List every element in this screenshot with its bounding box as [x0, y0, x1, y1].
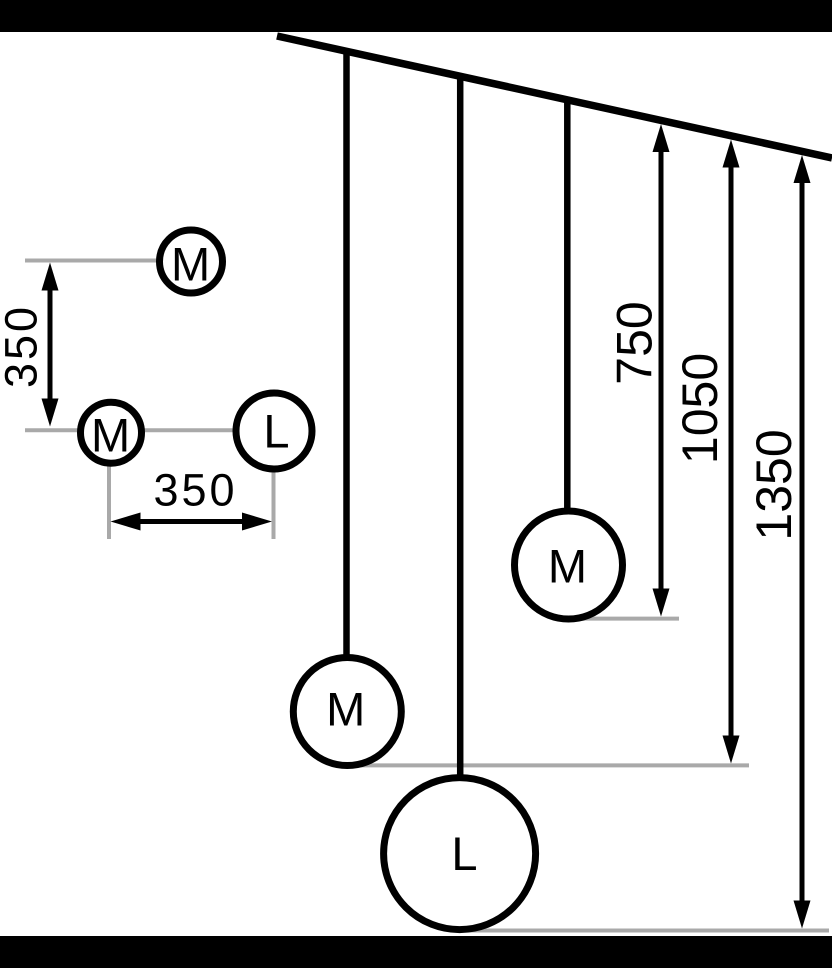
- svg-text:1050: 1050: [672, 353, 728, 464]
- gray level line under right M lamp: [569, 617, 680, 621]
- gray reference line row1 (plan M lamp): [25, 259, 191, 263]
- svg-text:L: L: [451, 827, 477, 880]
- plan view lamp L: [236, 393, 312, 469]
- 750 dimension arrow: [653, 124, 670, 617]
- gray level line under hanging L lamp: [460, 929, 829, 933]
- svg-text:M: M: [326, 683, 365, 736]
- hanging lamp M right: [515, 511, 623, 619]
- svg-text:350: 350: [153, 465, 237, 516]
- gray extension line below plan M2: [107, 433, 111, 539]
- gray reference line row2 (plan M + L lamps): [25, 428, 274, 432]
- cord of middle M lamp: [343, 50, 350, 680]
- plan view lamp M top: [160, 230, 223, 293]
- svg-text:M: M: [171, 238, 210, 291]
- top letterbox bar: [0, 0, 832, 32]
- vertical 350 dimension arrow: [42, 263, 59, 427]
- sloped ceiling line: [277, 36, 832, 158]
- gray extension line below plan L: [272, 431, 276, 539]
- cord of right M lamp: [564, 99, 571, 530]
- horizontal 350 dimension arrow: [111, 513, 273, 531]
- svg-text:1350: 1350: [746, 429, 802, 540]
- svg-text:750: 750: [607, 301, 663, 384]
- hanging lamp M middle: [293, 658, 401, 766]
- svg-text:M: M: [548, 540, 587, 593]
- svg-text:350: 350: [0, 304, 47, 388]
- plan view lamp M bottom: [81, 402, 142, 463]
- gray level line under middle M lamp: [347, 763, 749, 767]
- hanging lamp L: [384, 778, 536, 930]
- bottom letterbox bar: [0, 936, 832, 968]
- svg-text:L: L: [263, 405, 289, 458]
- cord of hanging L lamp: [457, 75, 464, 800]
- svg-text:M: M: [91, 409, 130, 462]
- 1050 dimension arrow: [723, 140, 740, 764]
- 1350 dimension arrow: [794, 155, 811, 929]
